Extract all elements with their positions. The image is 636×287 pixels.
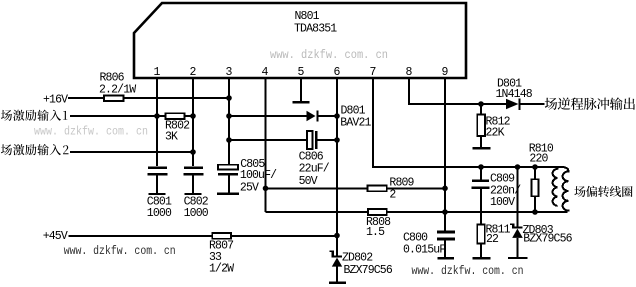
junction [532,209,538,215]
capacitor C801 1000 [148,167,167,170]
wire ZD803 to ground [517,238,519,257]
wire C802 to ground [192,175,194,193]
inductor 场偏转线圈 (field deflection coil) [553,167,558,206]
wire to ZD803 [517,167,519,226]
wire pin 3 to D801 anode [229,115,307,117]
junction [532,164,538,170]
ground C802 [185,193,202,195]
wire R812 to ground [480,136,482,147]
svg-text:22: 22 [486,233,499,246]
wire pin 5 to ground [300,78,302,101]
svg-text:8: 8 [406,66,413,79]
svg-text:5: 5 [298,66,305,79]
wire C800 to ground [444,241,446,257]
wire pin 4 elbow to R808 [266,211,369,213]
svg-text:220: 220 [529,152,548,165]
svg-text:TDA8351: TDA8351 [294,23,337,36]
svg-text:6: 6 [334,66,341,79]
wire R809 to pin 9 line [387,187,445,189]
ground ZD803 [508,257,527,259]
node 场激励输入1 (field drive input 1) [1,110,61,121]
node label 场偏转线圈 [574,186,632,197]
wire C801 to ground [156,175,158,193]
resistor R811 22 [477,225,485,244]
wire pin 7 down and right to deflection coil (output) [373,78,563,167]
wire C805 to ground [228,175,230,192]
op-amp / IC N801 TDA8351 body [134,3,466,78]
wire to R812 [480,104,482,115]
svg-text:3K: 3K [165,131,178,144]
junction [190,113,196,119]
svg-text:www. dzkfw. com. cn: www. dzkfw. com. cn [412,264,524,278]
svg-text:www. dzkfw. com. cn: www. dzkfw. com. cn [34,125,148,139]
wire pin 3 to C806 [229,139,307,141]
svg-text:1: 1 [154,66,161,79]
svg-text:D801: D801 [341,104,366,117]
svg-text:9: 9 [442,66,449,79]
svg-text:2: 2 [190,66,197,79]
node 场逆程脉冲输出 (field flyback pulse output) [545,97,635,110]
wire R808 to coil bottom [387,211,568,213]
wire pin 1 down to C801 [156,78,158,166]
resistor R812 22K [477,115,485,137]
svg-text:www. dzkfw. com. cn: www. dzkfw. com. cn [270,48,388,62]
svg-text:25V: 25V [240,181,259,194]
resistor R808 1.5 [368,209,387,215]
zener diode ZD803 BZX79C56 [512,226,522,228]
wire ZD802 to ground [336,266,338,281]
wire to R802 [157,115,166,117]
wire D801 cathode to pin 6 [319,115,337,117]
wire +16V to R806 [68,97,104,99]
svg-text:+16V: +16V [43,94,68,107]
resistor R802 [166,113,185,119]
wire R810 to coil bottom row [534,196,536,212]
wire R802 to pin 2 [185,115,194,117]
svg-text:22uF/: 22uF/ [299,162,330,175]
resistor R806 [104,96,124,102]
wire pin 8 down and right to D801 [409,78,506,104]
junction [154,113,160,119]
wire pin 3 down to C805 [228,78,230,165]
junction [442,186,448,192]
wire C809 to R811 [480,189,482,224]
junction [226,137,232,143]
ground R812 [473,147,491,149]
junction [334,113,340,119]
svg-text:R806: R806 [100,71,125,84]
node 场激励输入2 (field drive input 2) [1,144,61,155]
svg-text:3: 3 [226,66,233,79]
junction [226,113,232,119]
diode D801 BAV21 [307,111,316,121]
wire pin 2 down to C802 [192,78,194,166]
svg-text:BZX79C56: BZX79C56 [523,233,572,246]
resistor R809 2 [367,185,386,191]
svg-text:4: 4 [262,66,269,79]
diode D801 1N4148 [506,99,519,109]
svg-text:1/2W: 1/2W [209,263,234,276]
wire C806 to pin 6 [318,139,337,141]
junction [334,233,340,239]
zener diode ZD802 BZX79C56 [332,255,342,257]
junction [478,164,484,170]
svg-text:0.015uF: 0.015uF [403,243,446,256]
ground R811 [473,257,491,259]
svg-text:1.5: 1.5 [366,226,385,239]
wire pin 4 to R809 [266,187,368,189]
wire pin 9 down to C800 [444,78,446,231]
capacitor C806 22uF/50V [307,131,313,149]
svg-text:BAV21: BAV21 [340,117,371,130]
junction [190,149,196,155]
svg-text:100uF/: 100uF/ [240,169,277,182]
ground ZD802 [329,281,346,284]
svg-text:+45V: +45V [43,230,68,243]
svg-text:www. dzkfw. com. cn: www. dzkfw. com. cn [64,244,176,258]
wire to R810 [534,167,536,179]
svg-text:N801: N801 [295,10,320,23]
junction [442,209,448,215]
capacitor C802 1000 [184,167,203,170]
svg-text:22K: 22K [486,127,505,140]
wire input2 to pin 2 [70,151,193,153]
junction [263,186,269,192]
svg-text:1000: 1000 [184,207,209,220]
svg-text:50V: 50V [299,175,318,188]
ground C801 [148,193,165,195]
wire R811 to ground [480,244,482,258]
capacitor C805 100uF/25V (electrolytic) [218,165,238,170]
capacitor C800 0.015uF [437,231,455,234]
junction [478,101,484,107]
ground C800 [438,257,455,259]
resistor R807 33 1/2W [212,233,231,239]
wire to C809 [480,167,482,179]
svg-text:2.2/1W: 2.2/1W [99,84,136,97]
ground C805 [217,192,239,194]
svg-text:2: 2 [389,189,396,202]
svg-text:BZX79C56: BZX79C56 [344,264,393,277]
wire input1 to pin 1 [70,115,157,117]
junction [334,137,340,143]
ground pin 5 [293,101,310,103]
junction [515,164,521,170]
wire +45V to R807 [69,235,213,237]
wire R806 to pin 3 [124,97,230,99]
wire pin 4 down and right to R808 row [265,78,267,212]
wire R807 to pin 6 line [231,235,337,237]
wire pin 6 down to ZD802 [336,78,338,256]
svg-text:ZD802: ZD802 [342,252,373,265]
junction [226,95,232,101]
svg-text:100V: 100V [490,196,515,209]
wire D801 to output [521,103,545,105]
svg-text:1000: 1000 [147,207,172,220]
svg-text:7: 7 [370,66,376,79]
svg-text:1N4148: 1N4148 [496,88,533,101]
